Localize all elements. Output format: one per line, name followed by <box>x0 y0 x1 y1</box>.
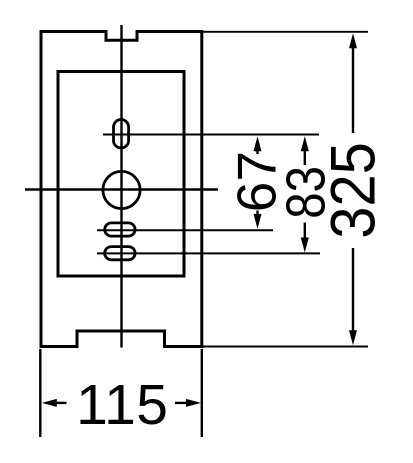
115 left extension line <box>39 349 41 437</box>
horizontal slot 1 <box>105 223 135 236</box>
extension line from slot 1 <box>97 229 273 231</box>
325 bottom extension line <box>202 346 368 348</box>
top vertical slot <box>114 120 129 149</box>
extension line from top slot <box>103 134 319 136</box>
outer plate outline with top notch and bottom raised step <box>41 32 202 347</box>
115 right extension line <box>201 349 203 437</box>
svg-text:325: 325 <box>317 142 388 239</box>
horizontal center line <box>25 188 218 190</box>
svg-text:115: 115 <box>76 373 168 437</box>
extension line from slot 2 <box>97 252 320 254</box>
dimension 325 arrows and line <box>349 33 357 345</box>
dimension 83 arrows and line <box>301 136 309 252</box>
325 top extension line <box>202 31 368 33</box>
vertical center line <box>120 25 122 348</box>
center circle <box>103 171 140 208</box>
horizontal slot 2 <box>105 247 135 260</box>
inner rectangle <box>58 72 184 277</box>
dimension 115 arrows <box>42 399 201 407</box>
dimension 67 arrows and line <box>254 136 262 229</box>
